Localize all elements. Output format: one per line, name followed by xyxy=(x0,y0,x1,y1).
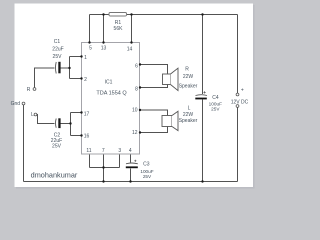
node pin12 at IC xyxy=(139,131,141,133)
wire from - terminal down xyxy=(237,108,239,182)
svg-text:C1: C1 xyxy=(54,39,61,45)
capacitor C2 positive plate (thick) xyxy=(58,118,60,128)
svg-text:25V: 25V xyxy=(143,174,152,179)
node pin7 ground xyxy=(102,180,104,182)
svg-text:10: 10 xyxy=(132,108,138,114)
svg-text:11: 11 xyxy=(86,148,91,154)
wire pin 11 drop xyxy=(89,154,91,168)
wire pin 2 stub xyxy=(70,78,82,80)
svg-text:14: 14 xyxy=(127,46,133,52)
node pin17 at IC xyxy=(80,111,82,113)
wire top supply rail xyxy=(90,14,238,16)
svg-text:2: 2 xyxy=(84,77,87,83)
node pin1 at IC xyxy=(80,55,82,57)
node pin10 at IC xyxy=(139,109,141,111)
wire pin 12 to speaker L bottom xyxy=(140,127,168,133)
page background xyxy=(0,0,260,194)
wire pins 1-2 junction bar xyxy=(69,57,71,79)
svg-text:25V: 25V xyxy=(52,143,62,149)
capacitor C2 negative plate (curved) xyxy=(55,119,58,128)
wire C4 branch lower xyxy=(202,100,204,182)
wire pin 8 to speaker R bottom xyxy=(140,85,168,88)
speaker R horn xyxy=(171,68,179,90)
node pin2 at IC xyxy=(80,77,82,79)
wire R input riser xyxy=(35,68,55,88)
wire C3 to ground rail xyxy=(130,169,132,182)
svg-text:13: 13 xyxy=(101,46,107,52)
wire pins 17-16 junction bar xyxy=(70,113,72,136)
svg-text:L: L xyxy=(31,112,34,118)
terminal L xyxy=(34,113,37,116)
speaker L horn xyxy=(172,111,178,130)
wire L input lead xyxy=(37,115,55,124)
svg-text:1: 1 xyxy=(84,55,87,61)
terminal R xyxy=(33,88,36,91)
wire pin 4 drop to C3 xyxy=(130,154,132,163)
svg-text:12: 12 xyxy=(132,130,138,136)
svg-text:+: + xyxy=(241,87,244,93)
capacitor C3 top plate (thin) xyxy=(126,162,138,165)
IC U1 box xyxy=(82,43,140,155)
wire pin 14 drop xyxy=(131,15,133,43)
node pin5 at IC xyxy=(88,41,90,43)
node top rail / pin14 xyxy=(130,13,132,15)
node C3 ground xyxy=(129,180,131,182)
resistor R1 body xyxy=(109,13,127,17)
terminal -12V xyxy=(236,105,239,108)
node top rail / pin13 xyxy=(102,13,104,15)
svg-text:22W: 22W xyxy=(183,112,194,118)
svg-text:17: 17 xyxy=(84,112,90,118)
svg-text:Gnd: Gnd xyxy=(11,101,21,107)
speaker L rectangle xyxy=(162,116,172,127)
wire pins 11-3 bus xyxy=(90,167,120,169)
terminal +12V xyxy=(236,93,239,96)
node pin16 at IC xyxy=(80,134,82,136)
wire pin 5 drop xyxy=(89,15,91,43)
wire pin 17 stub xyxy=(71,112,82,114)
svg-text:L: L xyxy=(188,105,191,111)
wire C1 to junction xyxy=(61,67,70,69)
svg-text:5: 5 xyxy=(89,45,92,51)
svg-text:16: 16 xyxy=(84,134,90,140)
wire pin 16 stub xyxy=(71,135,82,137)
svg-text:7: 7 xyxy=(102,148,105,154)
node pin7 bus xyxy=(102,166,104,168)
svg-text:56K: 56K xyxy=(114,26,124,32)
wire pin 13 drop xyxy=(103,15,105,43)
svg-text:12V DC: 12V DC xyxy=(231,99,249,105)
node pin13 at IC xyxy=(102,41,104,43)
speaker R rectangle xyxy=(163,74,171,85)
capacitor C3 bottom plate (thick) xyxy=(126,166,138,168)
svg-text:dmohankumar: dmohankumar xyxy=(31,170,78,179)
svg-text:22W: 22W xyxy=(183,74,194,80)
svg-text:8: 8 xyxy=(135,86,138,92)
node pin8 at IC xyxy=(139,86,141,88)
svg-text:Speaker: Speaker xyxy=(179,83,198,89)
node C2 junction xyxy=(69,122,71,124)
wire pin 6 to speaker R top xyxy=(140,65,168,75)
wire pin 3 drop xyxy=(119,154,121,168)
node C1 junction xyxy=(68,67,70,69)
svg-text:IC1: IC1 xyxy=(105,79,113,85)
wire pin 7 drop xyxy=(103,154,105,182)
capacitor C3 plus mark xyxy=(134,160,136,162)
node top rail / C4 branch xyxy=(201,13,203,15)
capacitor C4 top plate (thin) xyxy=(196,94,208,97)
terminal Gnd xyxy=(22,102,25,105)
wire pin 1 stub xyxy=(70,56,82,58)
node pin14 at IC xyxy=(130,41,132,43)
svg-text:4: 4 xyxy=(129,148,132,154)
svg-text:22uF: 22uF xyxy=(52,46,63,52)
svg-text:25V: 25V xyxy=(53,54,63,60)
node pin6 at IC xyxy=(139,63,141,65)
wire C2 to junction xyxy=(61,123,71,125)
svg-text:6: 6 xyxy=(135,63,138,69)
svg-text:Speaker: Speaker xyxy=(179,118,198,124)
wire bottom ground rail xyxy=(24,181,238,183)
capacitor C4 bottom plate (thick) xyxy=(195,98,207,100)
wire right supply drop to + terminal xyxy=(237,15,239,94)
wire C4 branch upper xyxy=(202,15,204,95)
svg-text:C4: C4 xyxy=(212,95,219,101)
wire ground drop from Gnd terminal xyxy=(23,105,25,182)
svg-text:3: 3 xyxy=(118,148,121,154)
capacitor C1 negative plate (curved) xyxy=(55,62,58,74)
capacitor C4 plus mark xyxy=(204,91,206,93)
svg-text:C3: C3 xyxy=(143,161,150,167)
svg-text:25V: 25V xyxy=(211,107,220,112)
svg-text:R: R xyxy=(185,66,189,72)
svg-text:R: R xyxy=(27,87,31,93)
svg-text:TDA 1554 Q: TDA 1554 Q xyxy=(96,90,127,96)
wire pin 10 to speaker L top xyxy=(140,110,168,116)
node C4 ground xyxy=(201,180,203,182)
capacitor C1 positive plate (thick) xyxy=(58,62,60,74)
